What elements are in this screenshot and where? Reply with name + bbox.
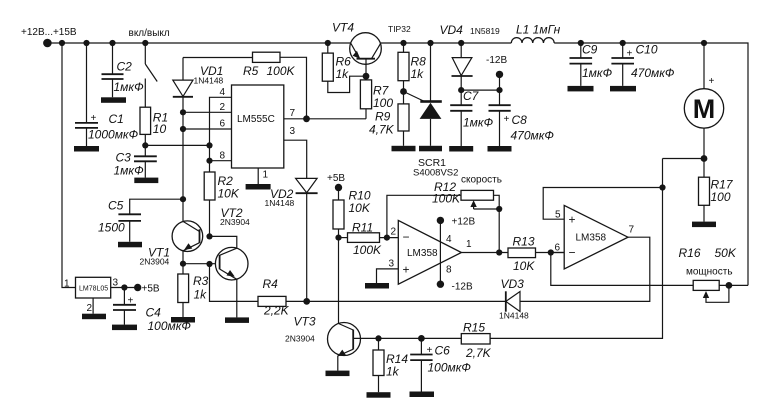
node +5V terminal at R10 [335, 184, 342, 191]
diode VD3 1N4148 [499, 277, 529, 321]
wire VT1 emitter to VT2 base [183, 263, 220, 265]
svg-text:1N4148: 1N4148 [499, 311, 529, 321]
svg-text:10K: 10K [218, 187, 240, 201]
node op2 pin6 [548, 249, 554, 255]
inductor L1 1мГн [511, 23, 560, 44]
potentiometer R12 100K скорость [432, 175, 502, 210]
switch вкл/выкл [129, 28, 170, 107]
ground LM78L05 [82, 314, 106, 320]
svg-text:1k: 1k [386, 365, 400, 379]
svg-text:2: 2 [87, 303, 93, 314]
svg-text:+5В: +5В [142, 284, 160, 295]
svg-text:L1 1мГн: L1 1мГн [516, 23, 561, 37]
svg-text:3: 3 [290, 126, 296, 137]
wire LM78L05 pin2 to ground [92, 298, 94, 314]
ground SCR1 [419, 146, 442, 152]
svg-text:2,7K: 2,7K [465, 346, 492, 360]
pin 6 wire [183, 128, 232, 130]
resistor R13 10K [508, 235, 564, 274]
svg-text:1N5819: 1N5819 [470, 26, 500, 36]
wire VD1 top to R5 [183, 57, 253, 59]
capacitor C6 100мкФ [410, 338, 471, 391]
diode VD1 1N4148 [173, 58, 224, 222]
pin 8 wire [210, 160, 232, 162]
svg-text:1500: 1500 [98, 221, 125, 235]
wire top rail L1 to right corner, down right edge [554, 43, 748, 285]
svg-text:10K: 10K [513, 259, 535, 273]
svg-text:+5В: +5В [327, 173, 345, 184]
svg-text:+: + [427, 345, 433, 356]
svg-text:1000мкФ: 1000мкФ [88, 128, 139, 142]
node R10/R11/VT3 collector [335, 235, 341, 241]
svg-text:C9: C9 [582, 43, 598, 57]
svg-text:8: 8 [446, 265, 452, 276]
resistor R17 100 [699, 159, 734, 222]
svg-text:100: 100 [711, 190, 731, 204]
potentiometer R16 50K мощность [679, 246, 749, 302]
svg-text:C8: C8 [512, 113, 528, 127]
wire op1 power +12V to -12V [439, 220, 441, 284]
node VD1/pin6 [180, 126, 186, 132]
svg-text:C4: C4 [146, 306, 162, 320]
node pin8 junction [206, 158, 212, 164]
node VD2/R4 line [303, 298, 310, 305]
wire top rail VT4 to L1 [381, 42, 512, 44]
wire VT2 base node down to R4 [210, 264, 259, 301]
svg-text:+: + [627, 49, 633, 60]
svg-text:4: 4 [220, 87, 226, 98]
node +5V terminal [134, 284, 141, 291]
svg-text:R9: R9 [375, 110, 391, 124]
pin 5 wire op2 feedback [543, 188, 662, 220]
resistor R11 100K [339, 221, 399, 258]
svg-text:R4: R4 [263, 277, 279, 291]
svg-text:1N4148: 1N4148 [265, 198, 295, 208]
svg-text:4: 4 [446, 234, 452, 245]
svg-text:+: + [128, 296, 134, 307]
svg-text:R16: R16 [679, 246, 701, 260]
node -12V terminal op1 [437, 281, 444, 288]
svg-text:R13: R13 [513, 235, 535, 249]
node VT4 base / R6 / R7 [363, 73, 370, 80]
node R1/C3 junction [142, 142, 148, 148]
node output/R12 [496, 249, 502, 255]
wire LM78L05 pin3 +5V [111, 287, 138, 289]
resistor R14 1k [373, 338, 408, 392]
svg-text:+: + [709, 76, 715, 87]
node pin4 vertical / C3 wire [206, 142, 212, 148]
pin 1 wire [257, 168, 259, 184]
node VD1/C5 [180, 196, 186, 202]
svg-text:100K: 100K [267, 64, 296, 78]
resistor R10 10K [333, 188, 371, 238]
capacitor C3 [114, 145, 157, 177]
svg-text:C5: C5 [108, 199, 124, 213]
svg-text:R15: R15 [463, 321, 485, 335]
svg-text:2N3904: 2N3904 [140, 257, 170, 267]
svg-text:1N4148: 1N4148 [194, 76, 224, 86]
diode VD4 1N5819 [440, 23, 501, 105]
transistor VT3 2N3904 [285, 315, 361, 371]
svg-text:6: 6 [220, 119, 226, 130]
node +12V input terminal [43, 39, 52, 48]
svg-text:R11: R11 [352, 221, 373, 235]
svg-text:VD4: VD4 [440, 23, 464, 37]
resistor R15 2,7K [461, 159, 662, 361]
resistor R1 [140, 107, 168, 136]
node R12 wiper junction [496, 206, 502, 212]
svg-text:1: 1 [263, 170, 269, 181]
resistor R2 10K [204, 172, 240, 201]
wire VT1 base node to VT2 collector [210, 236, 237, 248]
svg-text:S4008VS2: S4008VS2 [413, 168, 458, 179]
wire C7 node to C8 node [461, 89, 499, 91]
svg-text:+: + [504, 114, 510, 125]
wire R10 node down to VT3 collector [338, 238, 340, 324]
svg-text:2: 2 [220, 102, 226, 113]
wire C8 node to -12V terminal [499, 74, 501, 90]
svg-text:470мкФ: 470мкФ [511, 129, 555, 143]
svg-text:+: + [91, 113, 97, 124]
svg-text:−: − [569, 246, 576, 260]
ground C9 [568, 86, 594, 92]
pin 4 wire [210, 97, 232, 172]
IC U1 LM555C [232, 85, 284, 168]
svg-text:+12В...+15В: +12В...+15В [21, 27, 77, 38]
svg-text:C3: C3 [116, 151, 132, 165]
svg-text:LM358: LM358 [576, 233, 607, 244]
node R16 right terminal [726, 282, 733, 289]
node VT1 base [206, 233, 212, 239]
transistor VT1 2N3904 [140, 221, 203, 267]
svg-text:4,7K: 4,7K [369, 123, 395, 137]
op-amp U2b LM358 [564, 205, 628, 269]
thyristor SCR1 S4008VS2 [404, 43, 459, 179]
svg-text:C10: C10 [636, 43, 658, 57]
junction rail x62 [59, 40, 65, 46]
ground C1 [74, 146, 99, 152]
svg-text:M: M [693, 94, 716, 124]
pin 1 wire op1 output [461, 252, 508, 254]
ground C6 [410, 392, 435, 398]
svg-text:5: 5 [555, 210, 561, 221]
svg-text:LM78L05: LM78L05 [79, 286, 108, 293]
node -12V terminal [496, 71, 503, 78]
svg-text:1: 1 [466, 239, 472, 250]
node pin5 feedback tap [659, 184, 665, 190]
junction rail R6 [325, 40, 331, 46]
junction rail x112.5 [109, 40, 115, 46]
wire R12 right to output [494, 195, 500, 252]
node VD1/pin2 [180, 109, 186, 115]
pin 7 wire [284, 118, 366, 120]
svg-text:50K: 50K [715, 246, 737, 260]
diode VD2 1N4148 [265, 178, 318, 301]
resistor R8 1k [398, 43, 426, 104]
wire +12V top rail left section [44, 42, 351, 44]
node op1 pin2 [384, 235, 390, 241]
motor M [684, 43, 723, 159]
ground R14 [367, 392, 391, 398]
capacitor C2 [102, 43, 145, 97]
resistor R5 100K [243, 52, 296, 78]
ground C10 [610, 86, 636, 92]
svg-text:VT3: VT3 [294, 315, 316, 329]
svg-text:+: + [403, 263, 410, 277]
ground C2 [101, 97, 126, 103]
wire VD3 anode to op2 pin7 [520, 237, 650, 301]
junction rail C9 [578, 40, 584, 46]
wire R5 right to pin7 [280, 57, 307, 119]
transistor VT4 TIP32 [332, 21, 411, 77]
wire left vertical to LM78L05 pin1 [62, 43, 76, 288]
node motor bottom / R17 [701, 155, 708, 162]
node +12V terminal [437, 217, 444, 224]
IC U3 LM78L05 [64, 277, 119, 314]
junction rail SCR anode [427, 40, 433, 46]
svg-text:C1: C1 [109, 112, 124, 126]
wire pin6 down to R16 [551, 253, 693, 286]
wire R1 bottom to C3 junction [144, 134, 146, 145]
pin 3 wire op1 to ground [377, 269, 399, 283]
svg-text:−: − [403, 230, 410, 244]
svg-text:мощность: мощность [686, 267, 733, 278]
resistor R7 100 [360, 76, 393, 119]
capacitor C5 1500 [98, 199, 183, 242]
capacitor C1 [75, 43, 139, 146]
svg-text:470мкФ: 470мкФ [631, 66, 675, 80]
svg-text:3: 3 [389, 259, 395, 270]
ground op1 pin3 [365, 283, 389, 289]
junction rail motor [701, 40, 707, 46]
svg-text:VD3: VD3 [501, 277, 525, 291]
ground VT2 emitter [225, 317, 249, 323]
svg-text:2N3904: 2N3904 [285, 334, 315, 344]
svg-text:1: 1 [64, 279, 70, 290]
svg-text:R5: R5 [243, 64, 259, 78]
svg-text:6: 6 [555, 243, 561, 254]
junction rail VD4 [458, 40, 464, 46]
node C8 top [496, 87, 502, 93]
resistor R4 2,2K [258, 277, 290, 318]
svg-text:3: 3 [113, 278, 119, 289]
svg-text:2: 2 [391, 227, 397, 238]
svg-text:1мкФ: 1мкФ [114, 164, 145, 178]
ground R17 [692, 222, 716, 228]
wire R2 bottom to VT1 base node [209, 200, 211, 236]
svg-text:100мкФ: 100мкФ [148, 319, 192, 333]
transistor VT2 2N3904 [215, 206, 250, 317]
junction rail R8 [400, 40, 406, 46]
svg-text:+12В: +12В [452, 217, 476, 228]
capacitor C4 100мкФ [113, 288, 191, 334]
svg-text:100мкФ: 100мкФ [428, 361, 472, 375]
svg-text:1мкФ: 1мкФ [582, 66, 613, 80]
svg-text:C2: C2 [117, 60, 133, 74]
svg-text:-12В: -12В [452, 282, 473, 293]
resistor R9 4,7K [369, 104, 409, 146]
ground R3 [171, 317, 195, 323]
node VD4/C7/C8 branch [458, 87, 464, 93]
svg-text:1мкФ: 1мкФ [463, 116, 494, 130]
svg-text:C7: C7 [463, 89, 480, 103]
resistor R3 1k [178, 264, 209, 317]
ground C3 [134, 178, 158, 184]
capacitor C7 1мкФ [450, 89, 493, 146]
junction rail C10 [620, 40, 626, 46]
ground R9 [392, 146, 416, 152]
svg-text:R3: R3 [193, 274, 209, 288]
svg-text:-12В: -12В [486, 55, 507, 66]
svg-text:TIP32: TIP32 [388, 24, 411, 34]
wire VT3 base row [353, 337, 461, 339]
wire C3 junction to pin4/8 vertical [145, 144, 209, 146]
svg-text:LM555C: LM555C [237, 114, 275, 125]
svg-text:7: 7 [629, 225, 635, 236]
capacitor C9 1мкФ [570, 43, 613, 86]
svg-text:C6: C6 [435, 344, 451, 358]
node VT2 base [206, 261, 212, 267]
wire motor bottom to feedback vertical [663, 158, 705, 160]
node C6 top [418, 335, 425, 342]
capacitor C10 470мкФ [611, 43, 675, 86]
svg-text:1k: 1k [194, 288, 208, 302]
ground VT3 emitter [326, 371, 350, 377]
op-amp U2a LM358 [398, 220, 461, 284]
wire R4 right to VD3 [286, 300, 506, 302]
svg-text:8: 8 [220, 151, 226, 162]
svg-text:100: 100 [373, 96, 393, 110]
node pin7/R5 [303, 115, 310, 122]
ground C7 [449, 146, 473, 152]
svg-text:7: 7 [290, 108, 296, 119]
node R8/R9/SCR gate [400, 88, 407, 95]
svg-text:1k: 1k [411, 67, 425, 81]
svg-text:10K: 10K [349, 201, 371, 215]
capacitor C8 470мкФ [489, 90, 555, 146]
node R14 top [375, 335, 381, 341]
svg-text:2,2K: 2,2K [263, 304, 290, 318]
svg-text:10: 10 [153, 122, 167, 136]
node C4 tap [121, 284, 127, 290]
junction rail x86.5 [83, 40, 89, 46]
junction rail x145.3 [142, 40, 148, 46]
svg-text:скорость: скорость [461, 175, 502, 186]
svg-text:LM358: LM358 [407, 248, 438, 259]
svg-text:2N3904: 2N3904 [220, 217, 250, 227]
svg-text:1мкФ: 1мкФ [114, 80, 145, 94]
pin 2 wire [183, 111, 232, 113]
svg-text:1k: 1k [336, 67, 350, 81]
svg-text:вкл/выкл: вкл/выкл [129, 28, 170, 39]
svg-text:100K: 100K [353, 243, 382, 257]
node VT1 emitter / R3 [180, 261, 186, 267]
svg-text:100K: 100K [432, 192, 461, 206]
resistor R6 1k [322, 43, 366, 93]
ground C4 [112, 325, 137, 331]
ground pin1 LM555 [246, 184, 271, 190]
svg-text:+: + [569, 213, 576, 227]
pin 6 wire op2 [551, 252, 564, 254]
pin 3 wire [284, 140, 307, 178]
wire pin2 feedback up to R12 [387, 195, 461, 237]
svg-text:VT4: VT4 [332, 21, 354, 35]
ground C8 [488, 146, 512, 152]
ground C5 [118, 242, 142, 248]
